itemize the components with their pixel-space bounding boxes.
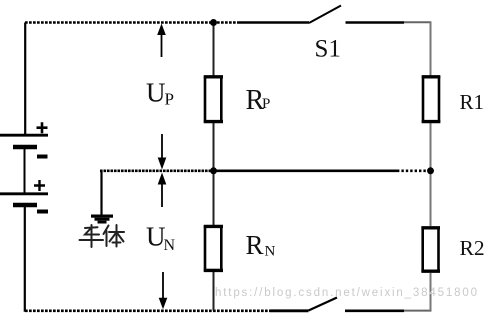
- svg-text:N: N: [265, 244, 276, 260]
- svg-text:R2: R2: [460, 236, 485, 260]
- svg-text:P: P: [165, 90, 174, 109]
- svg-text:N: N: [164, 237, 176, 254]
- svg-text:https://blog.csdn.net/weixin_3: https://blog.csdn.net/weixin_38451800: [215, 287, 477, 299]
- svg-text:R1: R1: [460, 90, 485, 114]
- svg-text:U: U: [146, 78, 166, 108]
- svg-text:R: R: [246, 230, 264, 260]
- svg-text:P: P: [262, 96, 270, 112]
- svg-text:S1: S1: [315, 36, 341, 63]
